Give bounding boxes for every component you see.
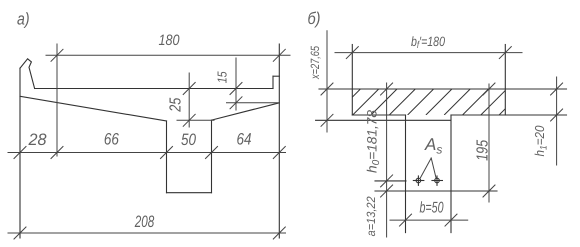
dim 25: tick top [183,83,195,95]
flange hatching [334,89,525,115]
flange bottom left segment [352,114,405,116]
svg-text:25: 25 [168,98,185,113]
rib right edge [211,120,213,193]
rib left edge [166,121,168,193]
As leader right leg [431,158,436,178]
curb notch outline top-left [20,59,35,89]
As centroid level line [375,180,406,182]
dim b=50: tick right [445,214,457,226]
As leader left leg [420,158,431,178]
dim 208: tick right [273,227,285,239]
svg-text:195: 195 [475,140,492,161]
dim x=27,65: dimension line [326,31,328,132]
web bottom line [375,190,497,192]
dim 15: tick bottom [230,97,242,109]
tick at x=166.5 [161,147,173,159]
svg-text:28: 28 [28,131,48,149]
dim b=50: dimension line [390,219,468,221]
svg-text:180: 180 [159,32,181,49]
dim 15: lower extension line [227,102,280,104]
flange bottom right segment with extension right [451,114,567,116]
left edge vertical with extension to bottom dims [19,68,21,238]
svg-text:x=27,65: x=27,65 [308,46,322,80]
right step horizontal [273,75,279,77]
dim h1=20: tick top [551,83,563,95]
flange right edge with extension up [504,45,506,116]
dim 25: dimension line [188,73,190,127]
svg-text:б): б) [308,9,321,28]
dim 15: dimension line [235,58,237,110]
svg-text:а): а) [17,10,30,29]
tick at x=20 [14,147,26,159]
flange left edge with extension up [351,45,353,116]
svg-text:15: 15 [214,71,229,84]
web right edge [450,115,452,233]
tick at x=211.5 [206,147,218,159]
rebar 2 crosshair [431,175,443,186]
svg-text:a=13,22: a=13,22 [364,196,378,236]
dim 195: dimension line [488,84,490,202]
dim 180: dimension line [46,54,290,56]
svg-text:b=50: b=50 [420,200,444,217]
tick at As level [381,175,393,187]
svg-text:64: 64 [237,130,252,148]
right step vertical [272,76,274,88]
dim x=27,65: tick bottom [321,114,333,126]
tick at x=279.3 [273,147,285,159]
rebar 1 crosshair [413,175,425,186]
bottom dim row 28/66/50/64: dimension line [8,152,286,154]
dim 195: tick top [483,83,495,95]
svg-text:h1=20: h1=20 [532,125,549,157]
dim 15: tick top [230,83,242,95]
svg-text:208: 208 [134,213,155,231]
tick at x=57 [51,147,63,159]
dim bf'=180: tick left [346,47,358,59]
dim 208: dimension line [8,232,286,234]
dim 208: tick left [14,227,26,239]
dim bf'=180: dimension line [335,52,522,54]
dim 180: tick right [273,49,285,61]
right edge vertical with extensions [278,44,280,238]
rib bottom [167,192,212,194]
dim h0 and a: shared dimension line [386,83,388,237]
left underside slope [20,96,167,121]
svg-text:50: 50 [181,131,197,149]
dim bf'=180: tick right [499,47,511,59]
tick at web bottom [381,185,393,197]
dim 25: tick bottom [183,114,195,126]
svg-text:66: 66 [104,131,120,149]
neutral axis x-level line [316,119,451,121]
dim 180: left extension line [56,44,58,156]
svg-text:bf′=180: bf′=180 [411,34,445,51]
top surface line [35,88,273,90]
dim x=27,65: tick top [321,83,333,95]
dim h1=20: tick bottom [551,109,563,121]
dim 180: tick left [51,49,63,61]
dim 25: lower extension segment at rib top [177,119,214,121]
tick at flange top [381,83,393,95]
dim h1=20: dimension line [556,77,558,165]
dim b=50: tick left [400,214,412,226]
right underside slope [212,103,280,120]
dim 195: tick bottom [483,185,495,197]
flange top line with extensions both sides [319,88,567,90]
web left edge [405,115,407,233]
